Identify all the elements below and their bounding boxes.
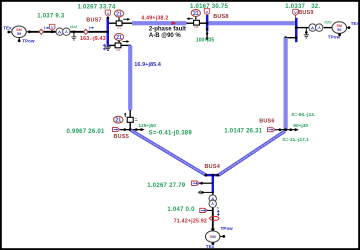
current meter I1 — [39, 26, 50, 35]
transmission line L75 — [128, 45, 132, 110]
ground (T1) — [71, 31, 76, 41]
relay 21 R2 — [114, 34, 123, 44]
node BUS5 junction — [120, 122, 145, 131]
current meter I3 — [210, 216, 219, 220]
svg-text:1.0147 26.31: 1.0147 26.31 — [224, 129, 262, 135]
svg-text:21: 21 — [116, 11, 122, 17]
svg-text:BUS6: BUS6 — [259, 118, 274, 124]
relay 21 R4 — [191, 10, 200, 20]
svg-text:21: 21 — [116, 35, 122, 41]
svg-text:BUS4: BUS4 — [205, 164, 221, 170]
fault symbol at BUS7 — [103, 44, 106, 51]
wire B4 to BUS8 — [199, 22, 207, 24]
svg-text:59: 59 — [337, 28, 341, 32]
wire B1 to line L78 — [122, 22, 133, 24]
svg-text:BUS9: BUS9 — [298, 10, 313, 16]
relay 21 R3 — [114, 116, 123, 123]
transformer T3 — [309, 21, 332, 32]
ground (T4) — [198, 190, 213, 194]
bus BUS8 — [206, 15, 209, 31]
wire B2 to line L75 — [121, 44, 131, 46]
breaker B2 — [115, 40, 129, 52]
svg-text:r21: r21 — [117, 26, 122, 30]
svg-text:TEx: TEx — [351, 21, 360, 26]
svg-text:1.0267 27.79: 1.0267 27.79 — [147, 183, 185, 189]
generator G2 — [206, 231, 226, 245]
transformer T4 — [209, 192, 216, 208]
svg-text:TPow: TPow — [328, 34, 341, 39]
svg-text:32.: 32. — [311, 4, 320, 10]
svg-text:S=-31.-j17.1: S=-31.-j17.1 — [282, 137, 309, 143]
ground (BUS7) — [105, 46, 111, 51]
relay 21 R1 — [114, 10, 123, 21]
wire T3 to G3 — [324, 27, 332, 29]
svg-text:A-B @90 %: A-B @90 % — [149, 33, 182, 39]
power meter M4b — [200, 208, 213, 212]
wire G1 to BUS7 — [29, 31, 107, 33]
power meter M5 — [112, 128, 119, 132]
wire BUS9 to L96 — [284, 36, 297, 39]
svg-text:r21: r21 — [116, 48, 121, 52]
svg-text:71.42+j25.92: 71.42+j25.92 — [174, 219, 207, 225]
volt meter V1 — [50, 24, 55, 33]
svg-text:r21: r21 — [194, 25, 199, 29]
transmission line L64 (diagonal BUS6-BUS4) — [218, 130, 286, 176]
svg-text:125+j50: 125+j50 — [138, 123, 156, 129]
power meter M4 — [192, 181, 213, 185]
svg-text:TEx: TEx — [3, 26, 12, 31]
svg-text:TEx: TEx — [206, 244, 215, 249]
svg-text:4.49+j38.2: 4.49+j38.2 — [141, 16, 168, 22]
current meter I2 — [84, 25, 95, 34]
load at BUS8 — [205, 28, 209, 41]
arrow into G2 — [211, 229, 215, 233]
svg-text:V: V — [206, 9, 209, 14]
wire L75 to breaker B3 — [129, 110, 131, 117]
svg-text:0.9967 26.01: 0.9967 26.01 — [67, 129, 105, 135]
svg-text:I: I — [44, 26, 45, 31]
generator G1 — [7, 26, 30, 42]
svg-text:I: I — [89, 25, 90, 30]
transmission line L96 — [284, 38, 288, 130]
svg-text:BUS7: BUS7 — [86, 18, 101, 24]
volt meter V8 — [204, 9, 209, 16]
svg-text:21: 21 — [115, 118, 121, 124]
transformer T1 — [56, 25, 77, 35]
svg-text:1.0337: 1.0337 — [285, 4, 305, 10]
svg-text:163.-j9.43: 163.-j9.43 — [80, 36, 106, 42]
svg-text:1.0267 33.74: 1.0267 33.74 — [78, 4, 116, 10]
volt meter V9 — [293, 9, 298, 18]
svg-text:1.047 0.0: 1.047 0.0 — [167, 207, 195, 213]
tap marks (T4) — [217, 207, 220, 216]
svg-text:TPow: TPow — [221, 226, 234, 231]
node BUS6 junction — [275, 128, 299, 131]
svg-text:16.9+j85.4: 16.9+j85.4 — [134, 62, 161, 68]
power meter M6 — [268, 128, 275, 132]
wire T4 to G2 — [212, 208, 214, 230]
power flow arrow on L78 — [172, 21, 177, 25]
svg-text:2-phase fault: 2-phase fault — [149, 27, 186, 33]
ground (T3) — [304, 28, 309, 38]
svg-text:V: V — [107, 11, 110, 16]
generator G3 — [332, 22, 350, 36]
bus BUS9 — [295, 18, 298, 42]
svg-text:S=-60.-j13.: S=-60.-j13. — [291, 112, 315, 118]
svg-text:S=-0.41-j0.389: S=-0.41-j0.389 — [149, 130, 193, 136]
wire BUS7 to breaker B1 — [109, 22, 116, 24]
svg-text:21: 21 — [193, 11, 199, 17]
svg-text:V: V — [51, 25, 54, 30]
breaker B3 — [124, 112, 137, 122]
svg-text:V: V — [294, 10, 297, 15]
svg-text:BUS5: BUS5 — [114, 134, 129, 140]
svg-text:59: 59 — [17, 32, 21, 36]
svg-text:BUS8: BUS8 — [213, 14, 228, 20]
bus BUS7 — [107, 17, 110, 45]
volt meter V7 — [105, 10, 110, 19]
transmission line L89 — [208, 21, 295, 25]
wire L78 to breaker B4 — [186, 22, 193, 24]
transmission line L54 (diagonal BUS5-BUS4) — [130, 129, 206, 176]
bus BUS4 — [205, 174, 220, 193]
svg-text:1.037 9.3: 1.037 9.3 — [37, 13, 65, 19]
svg-text:TPow: TPow — [22, 38, 35, 43]
svg-text:90+j30: 90+j30 — [293, 123, 308, 129]
wire BUS9 to T3 — [295, 26, 309, 29]
breaker B4 — [186, 17, 199, 29]
svg-text:#1#2: #1#2 — [324, 21, 331, 25]
svg-text:100+j35: 100+j35 — [196, 37, 214, 43]
wire BUS7 to breaker B2 — [109, 44, 115, 46]
breaker B1 — [116, 18, 130, 30]
svg-text:SM: SM — [210, 234, 217, 239]
transmission line L78 — [132, 21, 186, 25]
svg-text:#1#2: #1#2 — [70, 25, 77, 29]
svg-text:5: 5 — [217, 207, 219, 211]
